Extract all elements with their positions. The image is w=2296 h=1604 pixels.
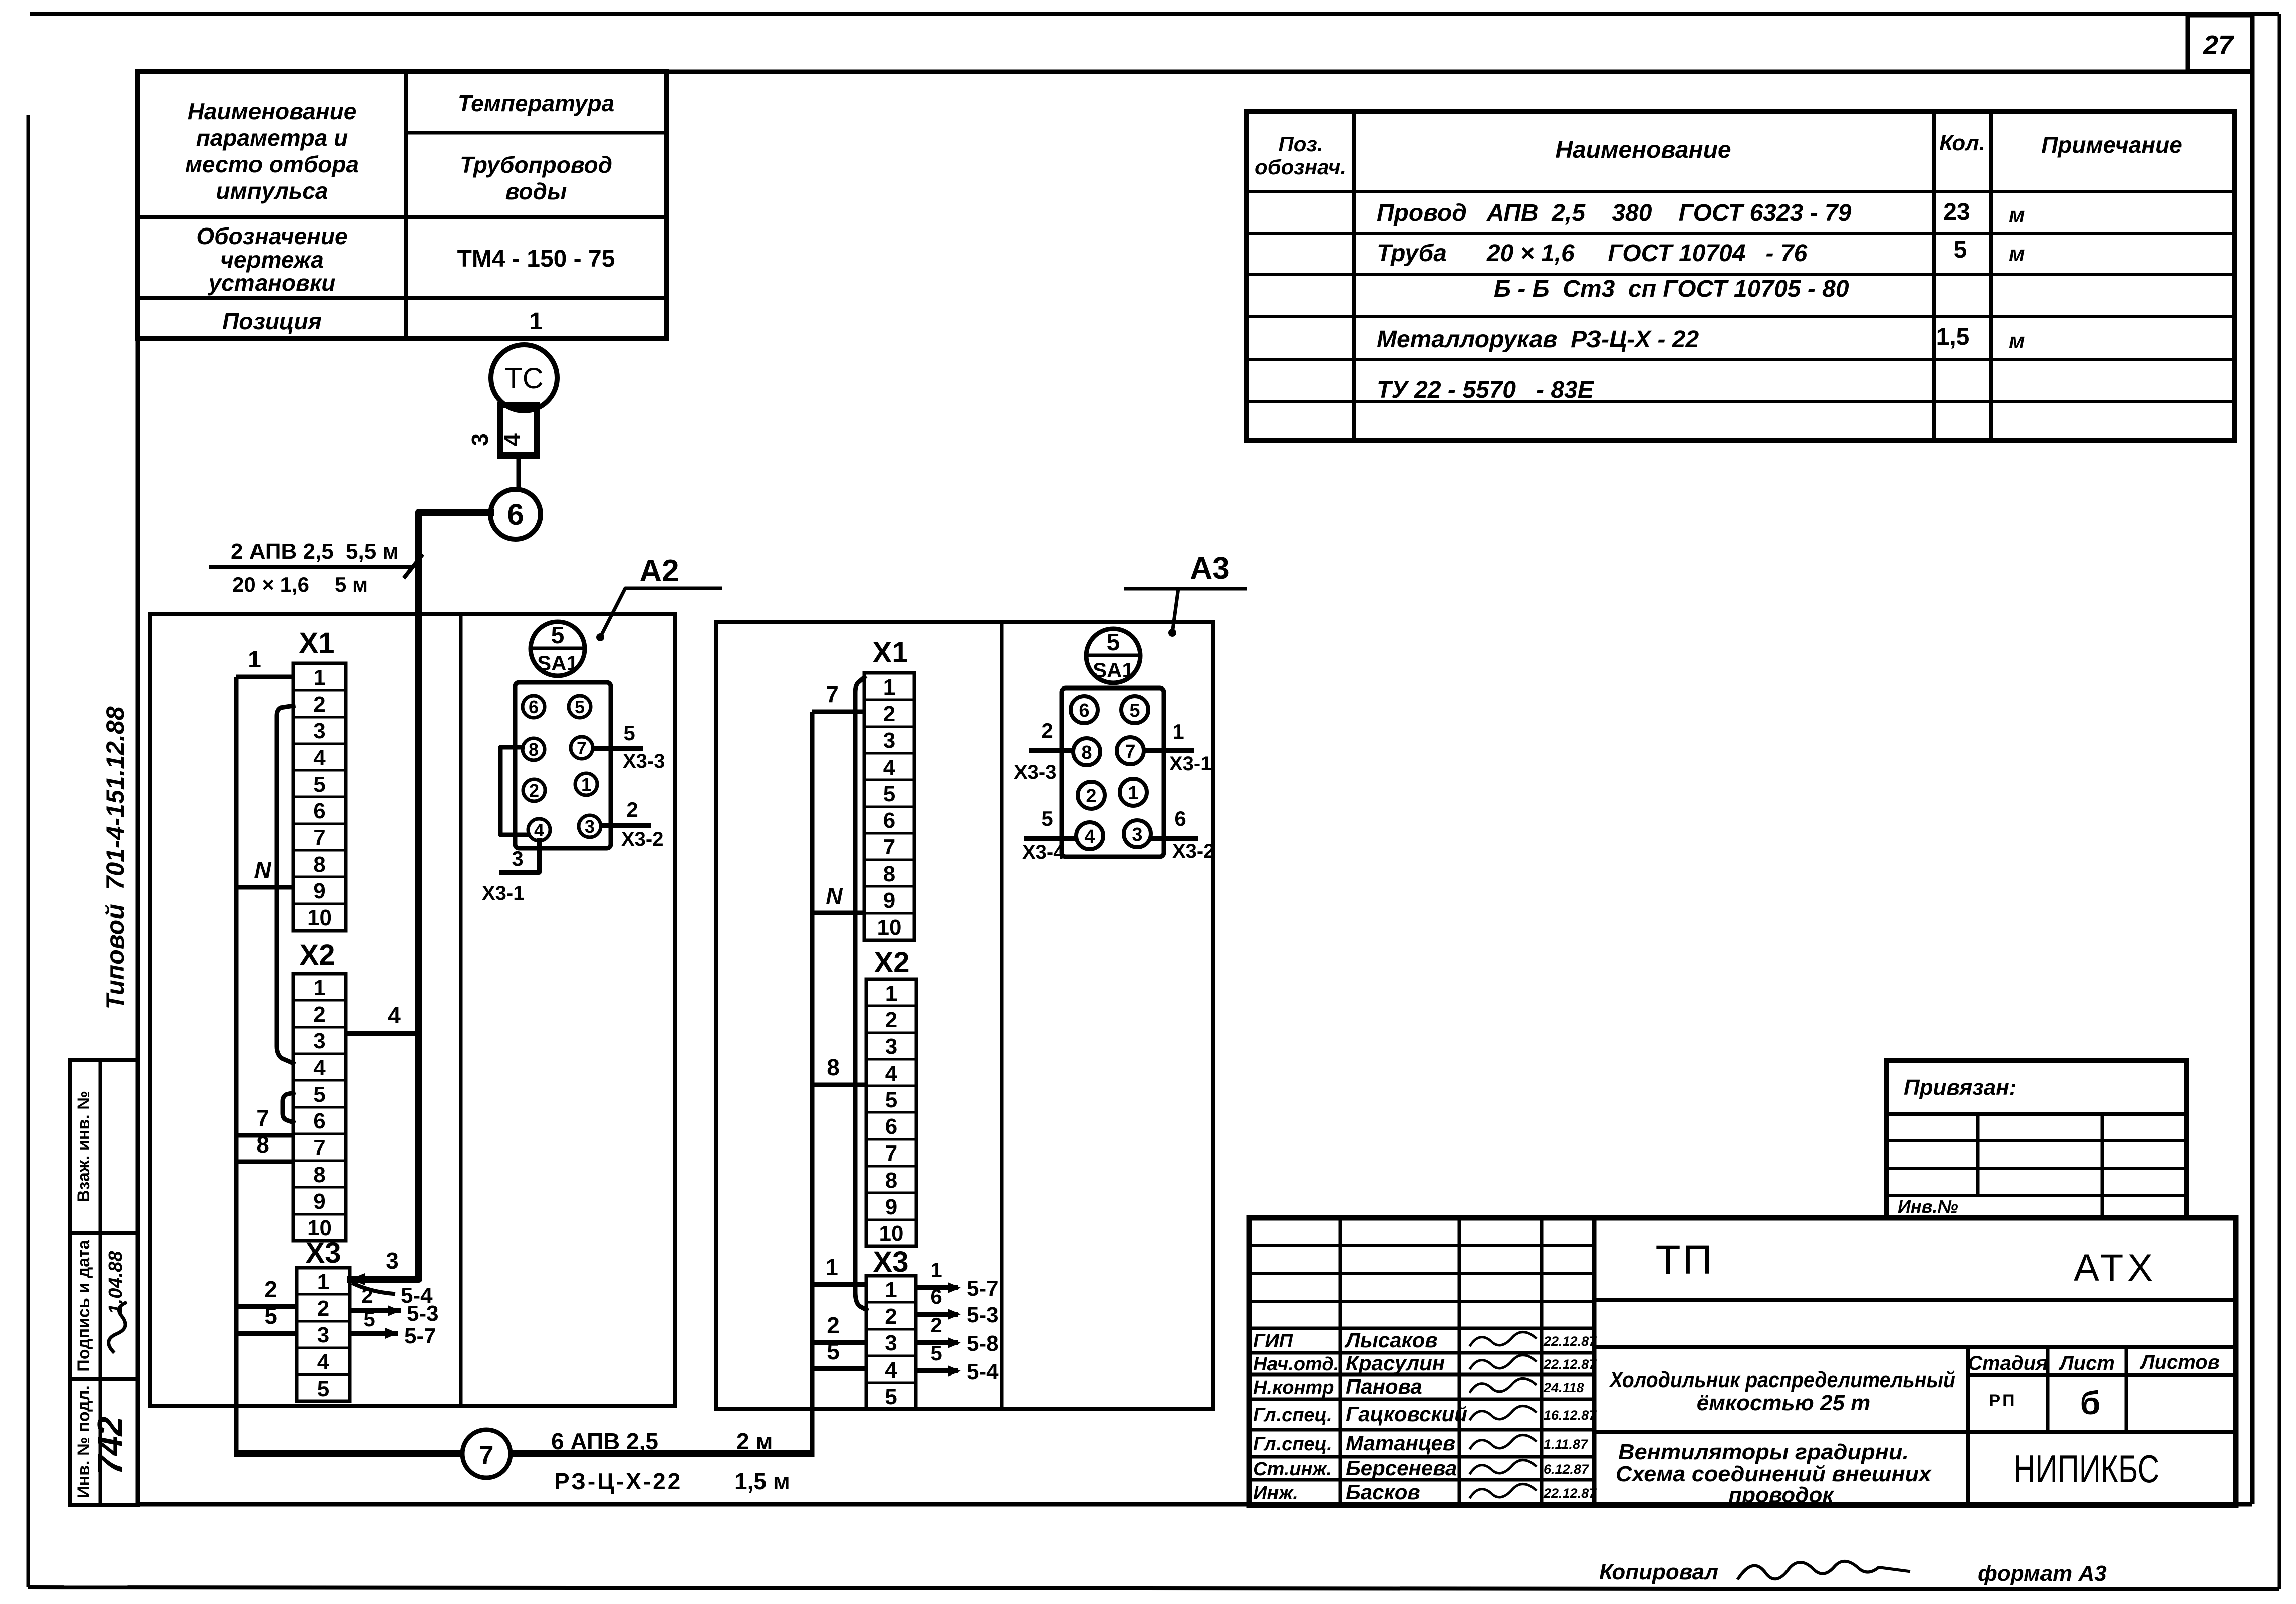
svg-text:проводок: проводок xyxy=(1728,1483,1835,1507)
svg-text:Наименование: Наименование xyxy=(1555,137,1731,163)
svg-text:1: 1 xyxy=(317,1270,329,1294)
svg-text:НИПИКБС: НИПИКБС xyxy=(2014,1447,2159,1491)
svg-text:5: 5 xyxy=(313,772,325,797)
svg-text:1,5: 1,5 xyxy=(1936,324,1970,350)
svg-text:8: 8 xyxy=(827,1054,840,1080)
svg-text:А3: А3 xyxy=(1190,551,1229,586)
svg-text:10: 10 xyxy=(877,915,902,940)
svg-text:Копировал: Копировал xyxy=(1599,1560,1718,1584)
svg-text:1: 1 xyxy=(248,646,261,672)
svg-text:Х2: Х2 xyxy=(874,946,910,979)
svg-text:2: 2 xyxy=(885,1304,897,1329)
svg-text:5: 5 xyxy=(827,1338,840,1364)
svg-text:1: 1 xyxy=(930,1258,942,1282)
svg-text:5: 5 xyxy=(363,1307,375,1331)
svg-text:формат А3: формат А3 xyxy=(1978,1561,2107,1586)
svg-text:742: 742 xyxy=(90,1417,129,1475)
svg-text:Трубопровод: Трубопровод xyxy=(460,152,612,178)
svg-text:N: N xyxy=(826,883,843,909)
svg-text:Х1: Х1 xyxy=(873,636,908,669)
svg-text:5: 5 xyxy=(885,1385,897,1409)
svg-text:10: 10 xyxy=(307,905,332,930)
svg-text:6: 6 xyxy=(313,1109,325,1133)
svg-text:4: 4 xyxy=(313,746,326,770)
svg-text:2: 2 xyxy=(827,1312,840,1338)
svg-text:3: 3 xyxy=(885,1331,897,1355)
svg-text:Гл.спец.: Гл.спец. xyxy=(1253,1405,1332,1426)
svg-text:Б - Б Ст3 сп ГОСТ 10705 - 80: Б - Б Ст3 сп ГОСТ 10705 - 80 xyxy=(1494,276,1849,302)
svg-text:ТМ4 - 150 - 75: ТМ4 - 150 - 75 xyxy=(457,246,615,272)
svg-text:2: 2 xyxy=(885,1008,897,1032)
svg-text:5-3: 5-3 xyxy=(967,1303,999,1327)
svg-text:X3-3: X3-3 xyxy=(1014,761,1057,783)
svg-text:1: 1 xyxy=(1128,783,1138,804)
svg-text:4: 4 xyxy=(499,433,525,446)
svg-text:Примечание: Примечание xyxy=(2041,132,2182,158)
svg-text:7: 7 xyxy=(479,1441,494,1470)
svg-text:ТП: ТП xyxy=(1655,1237,1714,1283)
svg-text:Басков: Басков xyxy=(1346,1480,1420,1504)
svg-text:6 АПВ 2,5: 6 АПВ 2,5 xyxy=(551,1428,658,1454)
svg-text:1: 1 xyxy=(313,665,325,690)
svg-text:Инв.№: Инв.№ xyxy=(1898,1196,1958,1217)
svg-text:X3-1: X3-1 xyxy=(482,882,525,904)
svg-text:7: 7 xyxy=(313,1135,325,1160)
svg-text:2: 2 xyxy=(883,702,895,726)
svg-text:Х3: Х3 xyxy=(306,1237,341,1269)
svg-text:Лысаков: Лысаков xyxy=(1344,1328,1438,1352)
svg-text:9: 9 xyxy=(313,879,325,903)
svg-text:2: 2 xyxy=(1086,786,1096,807)
svg-text:ёмкостью 25 т: ёмкостью 25 т xyxy=(1697,1391,1870,1415)
svg-text:X3-2: X3-2 xyxy=(1172,840,1215,862)
svg-text:X3-4: X3-4 xyxy=(1022,841,1065,863)
svg-text:6: 6 xyxy=(529,697,539,717)
svg-text:установки: установки xyxy=(208,270,336,296)
svg-text:7: 7 xyxy=(256,1105,269,1131)
svg-text:22.12.87: 22.12.87 xyxy=(1543,1357,1597,1372)
svg-text:чертежа: чертежа xyxy=(220,247,324,273)
svg-text:Нач.отд.: Нач.отд. xyxy=(1253,1354,1339,1375)
svg-text:Гацковский: Гацковский xyxy=(1346,1402,1467,1426)
svg-text:2: 2 xyxy=(313,1002,325,1027)
svg-text:ГИП: ГИП xyxy=(1253,1331,1293,1352)
svg-text:5: 5 xyxy=(1041,807,1053,830)
svg-text:5-3: 5-3 xyxy=(407,1301,439,1326)
svg-text:Стадия: Стадия xyxy=(1968,1352,2048,1374)
svg-text:9: 9 xyxy=(883,888,895,913)
svg-text:5: 5 xyxy=(885,1088,897,1112)
svg-text:Х1: Х1 xyxy=(299,627,335,659)
svg-text:РП: РП xyxy=(1989,1391,2016,1410)
svg-text:Х3: Х3 xyxy=(873,1246,909,1278)
svg-text:6: 6 xyxy=(883,808,895,833)
svg-text:1: 1 xyxy=(1172,720,1184,743)
svg-text:5 м: 5 м xyxy=(335,573,368,596)
svg-text:9: 9 xyxy=(313,1189,325,1214)
svg-text:3: 3 xyxy=(313,1029,325,1053)
svg-text:5: 5 xyxy=(1129,700,1140,721)
svg-text:5: 5 xyxy=(264,1303,277,1329)
svg-text:22.12.87: 22.12.87 xyxy=(1543,1334,1597,1349)
svg-text:2: 2 xyxy=(529,780,539,801)
svg-text:1,5 м: 1,5 м xyxy=(734,1468,790,1494)
svg-text:4: 4 xyxy=(313,1056,326,1080)
svg-text:10: 10 xyxy=(879,1221,904,1246)
svg-text:6: 6 xyxy=(313,799,325,823)
svg-text:5: 5 xyxy=(930,1341,942,1365)
svg-text:Панова: Панова xyxy=(1346,1374,1422,1398)
svg-text:1: 1 xyxy=(313,976,325,1000)
svg-text:X3-3: X3-3 xyxy=(623,750,665,772)
svg-text:27: 27 xyxy=(2203,30,2235,60)
svg-text:Взаж. инв. №: Взаж. инв. № xyxy=(74,1091,93,1202)
svg-text:4: 4 xyxy=(883,755,896,780)
svg-text:5,5 м: 5,5 м xyxy=(346,539,399,564)
svg-text:5: 5 xyxy=(551,622,565,649)
svg-text:Ст.инж.: Ст.инж. xyxy=(1253,1459,1332,1480)
svg-text:16.12.87: 16.12.87 xyxy=(1544,1408,1597,1423)
svg-text:7: 7 xyxy=(313,825,325,850)
svg-text:параметра и: параметра и xyxy=(196,125,348,151)
svg-text:Вентиляторы градирни.: Вентиляторы градирни. xyxy=(1618,1440,1909,1464)
svg-text:7: 7 xyxy=(1125,741,1135,762)
svg-text:6.12.87: 6.12.87 xyxy=(1544,1462,1590,1477)
svg-text:Х2: Х2 xyxy=(300,939,335,971)
svg-text:5-4: 5-4 xyxy=(967,1359,999,1384)
svg-text:2: 2 xyxy=(1041,719,1053,742)
svg-text:1.11.87: 1.11.87 xyxy=(1544,1437,1589,1452)
svg-text:2: 2 xyxy=(264,1276,277,1302)
svg-text:РЗ-Ц-Х-22: РЗ-Ц-Х-22 xyxy=(554,1468,682,1494)
svg-text:4: 4 xyxy=(388,1002,401,1028)
svg-text:8: 8 xyxy=(883,862,895,886)
svg-text:7: 7 xyxy=(826,681,839,707)
svg-text:6: 6 xyxy=(1079,700,1089,721)
svg-text:2: 2 xyxy=(930,1313,942,1337)
svg-text:5: 5 xyxy=(883,782,895,806)
svg-text:Холодильник распределительный: Холодильник распределительный xyxy=(1608,1367,1955,1392)
svg-text:Берсенева: Берсенева xyxy=(1346,1456,1457,1480)
svg-text:2 м: 2 м xyxy=(736,1428,773,1454)
svg-text:м: м xyxy=(2009,329,2025,353)
svg-text:5: 5 xyxy=(623,721,635,745)
svg-text:Типовой 701-4-151.12.88: Типовой 701-4-151.12.88 xyxy=(101,706,129,1009)
svg-text:4: 4 xyxy=(534,820,544,840)
svg-text:1: 1 xyxy=(530,308,543,335)
svg-text:6: 6 xyxy=(885,1114,897,1139)
svg-text:X3-2: X3-2 xyxy=(621,828,664,850)
svg-text:обознач.: обознач. xyxy=(1255,155,1346,179)
svg-text:SA1: SA1 xyxy=(1093,658,1134,682)
svg-text:Наименование: Наименование xyxy=(188,98,357,124)
svg-text:Инж.: Инж. xyxy=(1253,1483,1298,1504)
svg-text:3: 3 xyxy=(313,719,325,743)
svg-text:2 АПВ 2,5: 2 АПВ 2,5 xyxy=(231,539,334,564)
svg-text:импульса: импульса xyxy=(216,178,328,204)
svg-text:ТС: ТС xyxy=(504,362,543,395)
svg-text:1: 1 xyxy=(883,675,895,700)
svg-text:м: м xyxy=(2009,203,2025,227)
svg-text:Листов: Листов xyxy=(2139,1351,2220,1373)
svg-text:X3-1: X3-1 xyxy=(1169,753,1212,775)
svg-text:5: 5 xyxy=(1107,629,1120,656)
svg-text:место отбора: место отбора xyxy=(185,151,359,177)
svg-text:2: 2 xyxy=(361,1284,373,1307)
svg-text:2: 2 xyxy=(317,1296,329,1321)
svg-text:9: 9 xyxy=(885,1195,897,1219)
svg-text:Красулин: Красулин xyxy=(1346,1351,1445,1375)
svg-text:3: 3 xyxy=(317,1323,329,1347)
svg-text:Труба 20 × 1,6 ГОСТ 1: Труба 20 × 1,6 ГОСТ 10704 - 76 xyxy=(1377,240,1808,267)
svg-text:4: 4 xyxy=(885,1061,898,1086)
svg-text:24.118: 24.118 xyxy=(1543,1380,1584,1395)
svg-text:1: 1 xyxy=(581,774,591,795)
svg-text:2: 2 xyxy=(313,692,325,717)
svg-text:Подпись и дата: Подпись и дата xyxy=(74,1239,93,1372)
svg-text:22.12.87: 22.12.87 xyxy=(1543,1486,1597,1501)
svg-text:2: 2 xyxy=(626,798,638,821)
svg-text:5: 5 xyxy=(575,697,585,717)
svg-text:5: 5 xyxy=(1954,237,1967,263)
svg-text:6: 6 xyxy=(507,498,524,531)
svg-text:Провод АПВ 2,5 380 ГО: Провод АПВ 2,5 380 ГОСТ 6323 - 79 xyxy=(1377,200,1852,226)
svg-text:3: 3 xyxy=(585,816,595,837)
svg-text:8: 8 xyxy=(1081,742,1092,763)
svg-text:4: 4 xyxy=(1084,826,1095,847)
svg-text:3: 3 xyxy=(1132,824,1142,845)
svg-text:4: 4 xyxy=(885,1358,897,1383)
svg-text:8: 8 xyxy=(529,739,539,760)
svg-text:Температура: Температура xyxy=(458,90,614,116)
svg-text:м: м xyxy=(2009,242,2025,266)
svg-text:Металлорукав РЗ-Ц-Х - 22: Металлорукав РЗ-Ц-Х - 22 xyxy=(1377,326,1699,353)
svg-text:Кол.: Кол. xyxy=(1939,131,1985,155)
svg-text:23: 23 xyxy=(1943,199,1970,225)
svg-text:3: 3 xyxy=(885,1034,897,1059)
svg-text:N: N xyxy=(254,857,271,883)
svg-text:Поз.: Поз. xyxy=(1279,132,1323,156)
svg-text:Гл.спец.: Гл.спец. xyxy=(1253,1434,1332,1455)
svg-text:20 × 1,6: 20 × 1,6 xyxy=(232,573,309,596)
svg-text:7: 7 xyxy=(883,835,895,859)
svg-text:SA1: SA1 xyxy=(537,651,578,675)
svg-text:1: 1 xyxy=(885,1278,897,1302)
svg-text:3: 3 xyxy=(467,433,493,446)
svg-text:8: 8 xyxy=(256,1131,269,1158)
svg-text:АТХ: АТХ xyxy=(2074,1247,2157,1289)
svg-text:8: 8 xyxy=(885,1168,897,1193)
svg-text:А2: А2 xyxy=(639,554,679,588)
svg-text:4: 4 xyxy=(317,1350,330,1374)
svg-text:5: 5 xyxy=(313,1082,325,1107)
svg-text:6: 6 xyxy=(930,1285,942,1308)
svg-text:5: 5 xyxy=(317,1377,329,1401)
svg-text:воды: воды xyxy=(505,178,567,204)
svg-text:Обозначение: Обозначение xyxy=(196,223,347,249)
svg-text:5-7: 5-7 xyxy=(404,1324,436,1348)
svg-text:5-7: 5-7 xyxy=(967,1276,999,1301)
svg-text:ТУ 22 - 5570 - 83Е: ТУ 22 - 5570 - 83Е xyxy=(1377,377,1595,403)
svg-text:3: 3 xyxy=(883,728,895,753)
svg-text:Лист: Лист xyxy=(2058,1352,2115,1374)
svg-text:Матанцев: Матанцев xyxy=(1346,1431,1455,1455)
svg-text:7: 7 xyxy=(885,1141,897,1166)
svg-text:Привязан:: Привязан: xyxy=(1904,1075,2016,1100)
svg-text:5-8: 5-8 xyxy=(967,1331,999,1356)
svg-text:8: 8 xyxy=(313,1163,325,1187)
svg-text:1: 1 xyxy=(825,1254,838,1280)
svg-text:Позиция: Позиция xyxy=(222,308,322,334)
svg-text:3: 3 xyxy=(512,847,523,870)
svg-text:6: 6 xyxy=(1174,807,1186,830)
svg-text:7: 7 xyxy=(577,738,587,758)
svg-text:3: 3 xyxy=(386,1248,399,1274)
svg-text:1: 1 xyxy=(885,981,897,1006)
svg-text:8: 8 xyxy=(313,852,325,877)
svg-text:Н.контр: Н.контр xyxy=(1253,1377,1334,1398)
svg-text:б: б xyxy=(2080,1384,2101,1421)
